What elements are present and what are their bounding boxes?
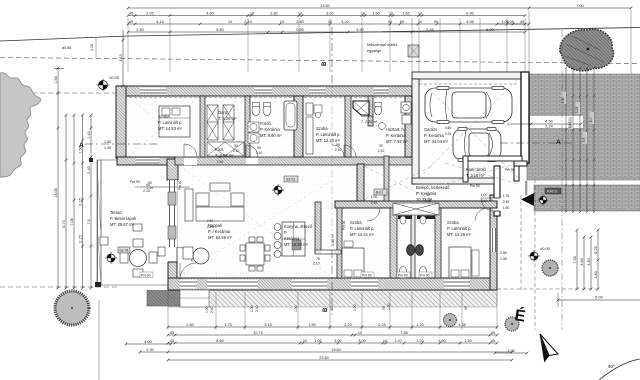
svg-text:A: A — [79, 142, 84, 149]
bathtub — [284, 101, 297, 130]
svg-text:2.10: 2.10 — [481, 199, 488, 203]
small tree A — [444, 314, 457, 327]
door szoba1 — [184, 158, 197, 165]
svg-text:45: 45 — [520, 20, 524, 24]
entry door arc — [481, 198, 494, 211]
door hall-furdo arc — [344, 145, 356, 157]
sofa nappali — [196, 183, 244, 221]
svg-text:Szoba: Szoba — [350, 220, 362, 225]
svg-text:7.06: 7.06 — [70, 218, 74, 225]
svg-text:3.90 m²: 3.90 m² — [331, 233, 335, 246]
svg-text:1.00: 1.00 — [371, 195, 378, 199]
wardrobe X bottom — [207, 142, 244, 156]
svg-text:7: 2.88 m²: 7: 2.88 m² — [215, 153, 234, 158]
svg-text:MT: 28.67 m²: MT: 28.67 m² — [110, 222, 135, 227]
svg-text:MT: 13.28 m²: MT: 13.28 m² — [447, 232, 472, 237]
svg-text:Pm 90: Pm 90 — [362, 274, 372, 278]
dark tree top-right — [560, 29, 614, 71]
svg-text:Pm 90: Pm 90 — [141, 274, 151, 278]
svg-text:RÁCS: RÁCS — [547, 190, 558, 194]
ref box SZ-01 — [284, 176, 298, 182]
top exterior wall — [117, 86, 412, 96]
kerti tarolo left wall — [463, 156, 468, 182]
svg-text:45: 45 — [129, 11, 133, 15]
svg-text:1.60: 1.60 — [438, 339, 445, 343]
svg-text:Kerti tároló: Kerti tároló — [466, 167, 487, 172]
svg-text:4.50: 4.50 — [445, 126, 452, 130]
svg-text:GL-01: GL-01 — [120, 249, 129, 253]
bedrooms top wall — [335, 201, 497, 208]
svg-text:2.50: 2.50 — [136, 28, 143, 32]
svg-text:2.40: 2.40 — [210, 306, 214, 313]
terrace corner node bottom — [95, 282, 101, 287]
top dim chain 2 — [128, 23, 525, 25]
svg-text:45: 45 — [129, 20, 133, 24]
top vertical drop lines — [127, 18, 129, 72]
partition haztart/garage — [405, 96, 412, 157]
svg-text:Közl.: Közl. — [215, 147, 224, 152]
partition kitchen/szoba3 — [337, 208, 342, 278]
nappali south door — [180, 280, 197, 289]
svg-text:Zuhany: Zuhany — [361, 114, 373, 118]
svg-text:Háztart. h.: Háztart. h. — [386, 127, 405, 132]
svg-text:P. Kerámia: P. Kerámia — [386, 133, 406, 138]
svg-text:P. / Kerámia: P. / Kerámia — [208, 229, 231, 234]
svg-text:1.50: 1.50 — [500, 251, 507, 255]
svg-text:1.00: 1.00 — [481, 193, 488, 197]
label 4.50 2.24 — [530, 116, 583, 128]
dark hatch block below terrace edge — [147, 289, 184, 306]
svg-text:90: 90 — [382, 306, 386, 310]
partition furdo/szoba2 — [294, 96, 303, 157]
svg-text:ø0.88: ø0.88 — [62, 46, 71, 50]
terrace corner node top — [89, 158, 93, 162]
svg-text:2.40: 2.40 — [503, 200, 510, 204]
svg-text:P. Beton lapok: P. Beton lapok — [110, 216, 137, 221]
top dim chain 3 — [128, 31, 525, 33]
bottom dim chain 1 — [168, 326, 497, 328]
svg-text:1.50: 1.50 — [372, 11, 379, 15]
zuhany/haztart partition — [368, 96, 373, 126]
section line A-A — [85, 143, 572, 144]
svg-text:10: 10 — [361, 11, 365, 15]
armchair nappali — [183, 247, 193, 259]
svg-text:4.35: 4.35 — [458, 323, 465, 327]
svg-text:P. Laminált p.: P. Laminált p. — [447, 226, 472, 231]
right top chain — [497, 23, 529, 25]
front dashed plot line — [0, 286, 168, 288]
svg-text:1.00: 1.00 — [294, 305, 298, 312]
svg-text:10: 10 — [358, 331, 362, 335]
door szoba4 — [475, 208, 488, 221]
partition szoba1/gard — [200, 96, 205, 157]
svg-text:10: 10 — [389, 11, 393, 15]
terrace small marker — [100, 224, 165, 256]
south landing step — [180, 290, 209, 307]
svg-text:1.10: 1.10 — [90, 44, 94, 51]
svg-text:Belépő, közlekedő: Belépő, közlekedő — [416, 185, 450, 190]
entry stub wall horizontal — [514, 161, 527, 166]
kerti tarolo top wall — [463, 156, 522, 161]
level marker terrace — [105, 252, 117, 264]
svg-text:10: 10 — [298, 11, 302, 15]
svg-text:4.95: 4.95 — [466, 20, 473, 24]
svg-text:Garázs: Garázs — [424, 127, 437, 132]
svg-text:Pm 90: Pm 90 — [130, 180, 140, 184]
svg-text:1.75: 1.75 — [503, 194, 510, 198]
twin dark fittings wc — [407, 245, 415, 256]
wardrobe row wc hall — [393, 203, 439, 215]
svg-text:3.60: 3.60 — [580, 258, 584, 265]
svg-text:Nappali: Nappali — [208, 223, 222, 228]
zuhany toilet — [375, 105, 382, 115]
svg-text:7.6: 7.6 — [87, 219, 91, 224]
tv cabinet — [185, 189, 193, 221]
ref box terrace — [118, 247, 130, 253]
svg-text:3.00: 3.00 — [358, 339, 365, 343]
corridor top wall — [175, 157, 412, 165]
svg-text:2.20: 2.20 — [344, 323, 351, 327]
svg-text:B: B — [323, 307, 329, 312]
muszer box symbol — [408, 45, 419, 57]
toilet furdo — [252, 105, 260, 116]
garage dashed diagonals — [419, 79, 518, 178]
hall wall vertical — [357, 164, 364, 201]
svg-text:1.00: 1.00 — [250, 305, 254, 312]
garage right wall — [521, 72, 529, 163]
svg-text:19.60: 19.60 — [331, 348, 341, 352]
bidet furdo — [263, 105, 271, 116]
svg-text:1.00: 1.00 — [387, 303, 391, 310]
shelf bar left — [398, 216, 412, 220]
entry arrow — [521, 193, 534, 206]
svg-text:10.75: 10.75 — [253, 331, 263, 335]
driveway hatched area — [527, 74, 640, 180]
svg-text:4.00: 4.00 — [144, 340, 151, 344]
kerti tarolo dashes — [445, 163, 518, 184]
svg-text:2.10: 2.10 — [217, 160, 224, 164]
svg-text:5.00: 5.00 — [595, 296, 602, 300]
svg-text:3.80: 3.80 — [587, 258, 591, 265]
svg-text:75: 75 — [316, 257, 320, 261]
svg-text:1.00: 1.00 — [353, 304, 357, 311]
svg-text:2.10: 2.10 — [143, 189, 150, 193]
kitchen right wall — [384, 156, 389, 201]
svg-text:2.15: 2.15 — [79, 235, 83, 242]
door szoba3 — [367, 208, 380, 221]
pantry wall bottom — [315, 250, 341, 254]
level marker hall — [272, 184, 284, 196]
svg-text:P. Laminált p.: P. Laminált p. — [158, 120, 183, 125]
property boundary diagonal top — [0, 28, 640, 42]
svg-text:45: 45 — [170, 331, 174, 335]
bed szoba3 — [342, 248, 364, 278]
svg-text:90: 90 — [146, 183, 150, 187]
level marker right site — [528, 250, 540, 262]
wardrobe X left — [207, 105, 218, 140]
partition wc/szoba4 — [435, 208, 441, 278]
sink furdo 2 — [248, 133, 259, 143]
nappali left wall lower — [168, 262, 177, 290]
top wall windows — [140, 88, 166, 95]
svg-text:1.40: 1.40 — [568, 122, 572, 129]
svg-text:1.50: 1.50 — [104, 140, 111, 144]
door furdo — [246, 158, 258, 164]
south door arc — [180, 263, 196, 279]
svg-text:23.60: 23.60 — [319, 356, 329, 360]
svg-text:1.20: 1.20 — [394, 339, 401, 343]
svg-text:2.15: 2.15 — [79, 198, 83, 205]
car 2 in garage — [453, 128, 501, 162]
svg-text:MT: 52.56 m²: MT: 52.56 m² — [208, 235, 233, 240]
bottom exterior wall — [168, 278, 497, 290]
svg-text:3.15: 3.15 — [264, 323, 271, 327]
svg-text:MT: 15.90 m²: MT: 15.90 m² — [284, 242, 309, 247]
svg-text:10.33 m²: 10.33 m² — [416, 197, 433, 202]
svg-text:egysége: egysége — [367, 49, 381, 53]
svg-text:MT: 34.04 m²: MT: 34.04 m² — [424, 139, 449, 144]
svg-text:Konyha, étkező: Konyha, étkező — [284, 224, 313, 229]
closet szoba2 — [306, 117, 313, 154]
dark label box sidewalk — [545, 188, 561, 194]
garage left wall — [412, 79, 419, 184]
svg-text:3.00: 3.00 — [334, 339, 341, 343]
wc toilet 1 — [400, 267, 407, 276]
spiky tree bottom-left — [55, 291, 89, 325]
partition gard/furdo — [245, 96, 250, 157]
svg-text:4.60: 4.60 — [206, 11, 213, 15]
svg-text:2.10: 2.10 — [233, 149, 240, 153]
car 1 in garage — [425, 87, 512, 124]
svg-text:8.60: 8.60 — [216, 339, 223, 343]
svg-text:2.05: 2.05 — [146, 11, 153, 15]
svg-text:2.25: 2.25 — [378, 323, 385, 327]
bottom dim 4.00 — [126, 343, 171, 345]
svg-text:MT: 14.53 m²: MT: 14.53 m² — [158, 126, 183, 131]
svg-text:MT: 12.20 m²: MT: 12.20 m² — [316, 138, 341, 143]
small tree C — [542, 260, 558, 276]
svg-text:2.24: 2.24 — [445, 132, 452, 136]
svg-text:P. Laminált p.: P. Laminált p. — [350, 226, 375, 231]
bottom dim 19.60 with 2.30 — [140, 351, 512, 353]
svg-text:A: A — [556, 139, 561, 146]
svg-text:1.05: 1.05 — [501, 20, 508, 24]
svg-text:13.05: 13.05 — [54, 188, 58, 198]
svg-text:10: 10 — [303, 339, 307, 343]
svg-text:1.50: 1.50 — [507, 349, 514, 353]
svg-text:10: 10 — [418, 11, 422, 15]
bed szoba4 — [449, 247, 471, 278]
left exterior wall — [116, 86, 126, 158]
corner arc 90deg — [599, 359, 640, 380]
kitchen stools — [274, 224, 281, 231]
nappali left wall corner — [167, 159, 178, 180]
svg-text:Pm 90: Pm 90 — [470, 184, 480, 188]
svg-text:Műszervtyű külőni: Műszervtyű külőni — [367, 43, 398, 47]
svg-text:T: 3.16 m²: T: 3.16 m² — [466, 173, 485, 178]
svg-text:4.50: 4.50 — [545, 120, 552, 124]
svg-text:1.40: 1.40 — [87, 131, 91, 138]
svg-text:±0.00: ±0.00 — [540, 246, 551, 251]
entry stub wall vertical — [514, 166, 519, 181]
svg-text:Terasz: Terasz — [110, 210, 122, 215]
partition szoba2/zuhany — [345, 96, 351, 157]
zuhany sink — [379, 123, 386, 130]
terrace floor — [97, 160, 177, 285]
svg-text:90: 90 — [257, 146, 261, 150]
svg-text:Szoba: Szoba — [447, 220, 459, 225]
garage dashed inner — [419, 83, 518, 85]
svg-text:2.10: 2.10 — [371, 201, 378, 205]
wardrobe X right — [223, 105, 234, 140]
svg-text:1.30: 1.30 — [104, 146, 111, 150]
svg-text:2.65: 2.65 — [426, 28, 433, 32]
svg-text:2.40: 2.40 — [255, 305, 259, 312]
svg-text:1.65: 1.65 — [402, 11, 409, 15]
svg-text:4.0: 4.0 — [589, 118, 593, 123]
bottom dim chain 2 — [168, 334, 497, 336]
svg-text:2.40: 2.40 — [87, 166, 91, 173]
svg-text:Gard.: Gard. — [218, 110, 228, 115]
walkway hatch below entry — [500, 181, 527, 195]
svg-text:Szoba: Szoba — [316, 126, 328, 131]
kitchen island — [282, 222, 305, 256]
svg-text:60: 60 — [330, 306, 334, 310]
desk szoba2 — [306, 103, 313, 115]
house floor background — [117, 74, 525, 290]
svg-text:45: 45 — [491, 339, 495, 343]
svg-text:7: 5.28 m²: 7: 5.28 m² — [218, 116, 237, 121]
svg-text:2.10: 2.10 — [313, 262, 320, 266]
setback dashed line — [0, 58, 640, 64]
nappali terrace door arc — [177, 247, 192, 262]
szoba4 right window — [491, 228, 496, 252]
svg-text:2.10: 2.10 — [378, 149, 385, 153]
svg-text:Kerámia: Kerámia — [284, 236, 300, 241]
north arrow — [540, 334, 558, 356]
svg-text:0.80: 0.80 — [296, 28, 303, 32]
inner dashed line below top wall — [129, 97, 412, 99]
svg-text:3.20: 3.20 — [341, 20, 348, 24]
left dashed plot line — [0, 92, 117, 94]
svg-text:10: 10 — [250, 11, 254, 15]
svg-text:2.80: 2.80 — [296, 20, 303, 24]
svg-text:90: 90 — [379, 144, 383, 148]
zuhany shower — [353, 101, 369, 115]
svg-text:1.90: 1.90 — [503, 206, 510, 210]
svg-text:7.00: 7.00 — [576, 4, 583, 8]
svg-text:P. Kerámia: P. Kerámia — [260, 127, 280, 132]
svg-text:4.15: 4.15 — [156, 20, 163, 24]
svg-text:90: 90 — [234, 144, 238, 148]
pantry door gap — [322, 251, 334, 254]
svg-text:P. Kerámia: P. Kerámia — [424, 133, 444, 138]
svg-text:Szoba: Szoba — [158, 114, 170, 119]
svg-text:1.00: 1.00 — [205, 306, 209, 313]
right chains on driveway — [565, 68, 567, 212]
door szoba2 — [332, 145, 344, 157]
terrace table — [130, 250, 147, 267]
boundary dash-dot x562 — [561, 30, 563, 330]
left vertical dim lines — [57, 68, 59, 288]
svg-text:7.85: 7.85 — [400, 331, 407, 335]
svg-text:2.10: 2.10 — [335, 148, 342, 152]
nappali dashed diagonals — [178, 165, 332, 277]
nappali left big window — [168, 180, 177, 247]
top overall dim 23.60 / 7.00 — [128, 7, 631, 9]
svg-text:P: Kerámia: P: Kerámia — [416, 191, 437, 196]
svg-text:2.10: 2.10 — [256, 151, 263, 155]
bottom dim chain 3 — [168, 342, 497, 344]
wc toilet 2 — [420, 267, 427, 276]
svg-text:1.50: 1.50 — [54, 76, 58, 83]
top dim chain 1 — [128, 15, 525, 17]
left wall window — [119, 116, 127, 136]
svg-text:10: 10 — [418, 20, 422, 24]
svg-text:Pm 90: Pm 90 — [178, 181, 182, 190]
szoba1 terrace window gap — [136, 158, 159, 164]
szoba1 bottom / terrace top wall — [117, 157, 175, 165]
svg-text:6.25: 6.25 — [594, 246, 598, 253]
svg-text:2.80: 2.80 — [270, 11, 277, 15]
bottom drop lines — [167, 292, 169, 330]
svg-text:Pm 90: Pm 90 — [420, 274, 430, 278]
svg-text:1.20: 1.20 — [416, 339, 423, 343]
wc middle partition — [411, 214, 415, 278]
level marker site top-left — [97, 79, 110, 92]
svg-text:B: B — [322, 61, 328, 66]
svg-text:2.40: 2.40 — [561, 97, 565, 104]
svg-text:5.9: 5.9 — [582, 138, 586, 143]
svg-text:±0.00: ±0.00 — [109, 75, 120, 80]
Pm90 boxes bottom — [361, 272, 374, 278]
sidewalk hatched band — [534, 185, 640, 211]
round table nappali — [193, 248, 209, 264]
svg-text:90°: 90° — [608, 364, 615, 369]
szoba1 dashed diagonals — [129, 97, 199, 156]
garage top wall — [412, 72, 525, 79]
ref box hall — [374, 189, 387, 195]
right lower vertical chains — [576, 230, 578, 289]
svg-text:3.13: 3.13 — [119, 54, 123, 61]
bottom dim 1.50 — [495, 352, 527, 354]
shelf bar right — [417, 216, 435, 220]
svg-text:3.19: 3.19 — [575, 107, 579, 114]
level marker sidewalk — [537, 194, 548, 205]
svg-text:5.80: 5.80 — [216, 28, 223, 32]
svg-text:90: 90 — [336, 143, 340, 147]
svg-text:1.75: 1.75 — [224, 323, 231, 327]
svg-text:10: 10 — [228, 20, 232, 24]
svg-text:2.24: 2.24 — [545, 125, 552, 129]
wc sinks — [400, 216, 406, 224]
terrace door dim line — [135, 186, 190, 188]
tree blob top-left — [0, 73, 41, 177]
svg-text:7.35: 7.35 — [573, 256, 577, 263]
svg-text:1.50: 1.50 — [464, 339, 471, 343]
bottom windows — [207, 280, 258, 289]
bed szoba1 — [159, 106, 190, 137]
bottom dim 23.60 — [168, 359, 512, 361]
svg-text:10: 10 — [383, 339, 387, 343]
partition szoba3/wc — [390, 208, 397, 278]
svg-text:2.80: 2.80 — [186, 323, 193, 327]
right exterior wall lower — [490, 195, 497, 290]
svg-text:MT: 9.90 m²: MT: 9.90 m² — [260, 133, 282, 138]
svg-text:3.80: 3.80 — [594, 271, 598, 278]
dashed lines right of house — [521, 179, 535, 330]
svg-text:MT: 14.41 m²: MT: 14.41 m² — [350, 232, 375, 237]
